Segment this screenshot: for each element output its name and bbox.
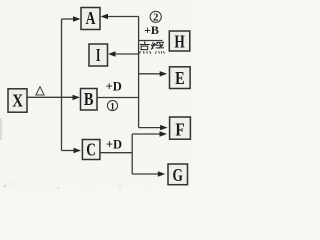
arrowhead into B bbox=[73, 95, 81, 100]
arrowhead into C bbox=[74, 148, 82, 153]
box G bbox=[168, 164, 188, 185]
arrowhead into G bbox=[158, 171, 166, 176]
wire branch to A bbox=[62, 18, 74, 20]
wire mid vertical bbox=[131, 134, 133, 174]
box A bbox=[81, 8, 100, 30]
arrowhead into A left bbox=[73, 16, 81, 21]
box C bbox=[82, 139, 100, 159]
arrowhead into I bbox=[108, 51, 116, 56]
wire into A right bbox=[108, 16, 139, 18]
arrowhead into E bbox=[160, 71, 168, 76]
box E bbox=[170, 67, 191, 89]
delta symbol above X wire bbox=[36, 87, 44, 95]
wire right vertical to F upper bbox=[139, 127, 161, 129]
box F bbox=[170, 117, 191, 139]
condition fraction bar (+B over dian-ran) bbox=[139, 40, 163, 42]
label +D near B bbox=[106, 80, 122, 94]
wire right vertical connector bbox=[138, 17, 140, 128]
box H bbox=[169, 31, 190, 51]
wire C to mid junction bbox=[101, 152, 133, 154]
wire branch to C bbox=[62, 150, 76, 152]
arrowhead into F lower bbox=[160, 131, 168, 136]
wire into E bbox=[139, 73, 160, 75]
arrowhead into F upper bbox=[160, 125, 168, 130]
label dian (Chinese: ignite char 1) bbox=[140, 42, 151, 54]
arrowhead into A right bbox=[101, 14, 109, 19]
wire left vertical branch bbox=[61, 19, 63, 151]
wire X to branch junction and on to B bbox=[28, 96, 74, 98]
scan noise texture bbox=[0, 0, 196, 190]
wire to G bbox=[132, 173, 158, 175]
label circled 1 bbox=[107, 101, 117, 113]
scan noise blobs bbox=[0, 118, 121, 189]
wire B to right vertical bbox=[97, 97, 139, 99]
label ran (Chinese: ignite char 2) bbox=[151, 42, 164, 53]
label +D near C bbox=[106, 138, 122, 152]
box B bbox=[81, 89, 98, 111]
label +B bbox=[144, 23, 159, 37]
label circled 2 bbox=[150, 11, 161, 23]
wire to F lower bbox=[132, 133, 160, 135]
wire into I bbox=[115, 53, 139, 55]
box X bbox=[8, 89, 27, 112]
box I bbox=[89, 44, 108, 66]
